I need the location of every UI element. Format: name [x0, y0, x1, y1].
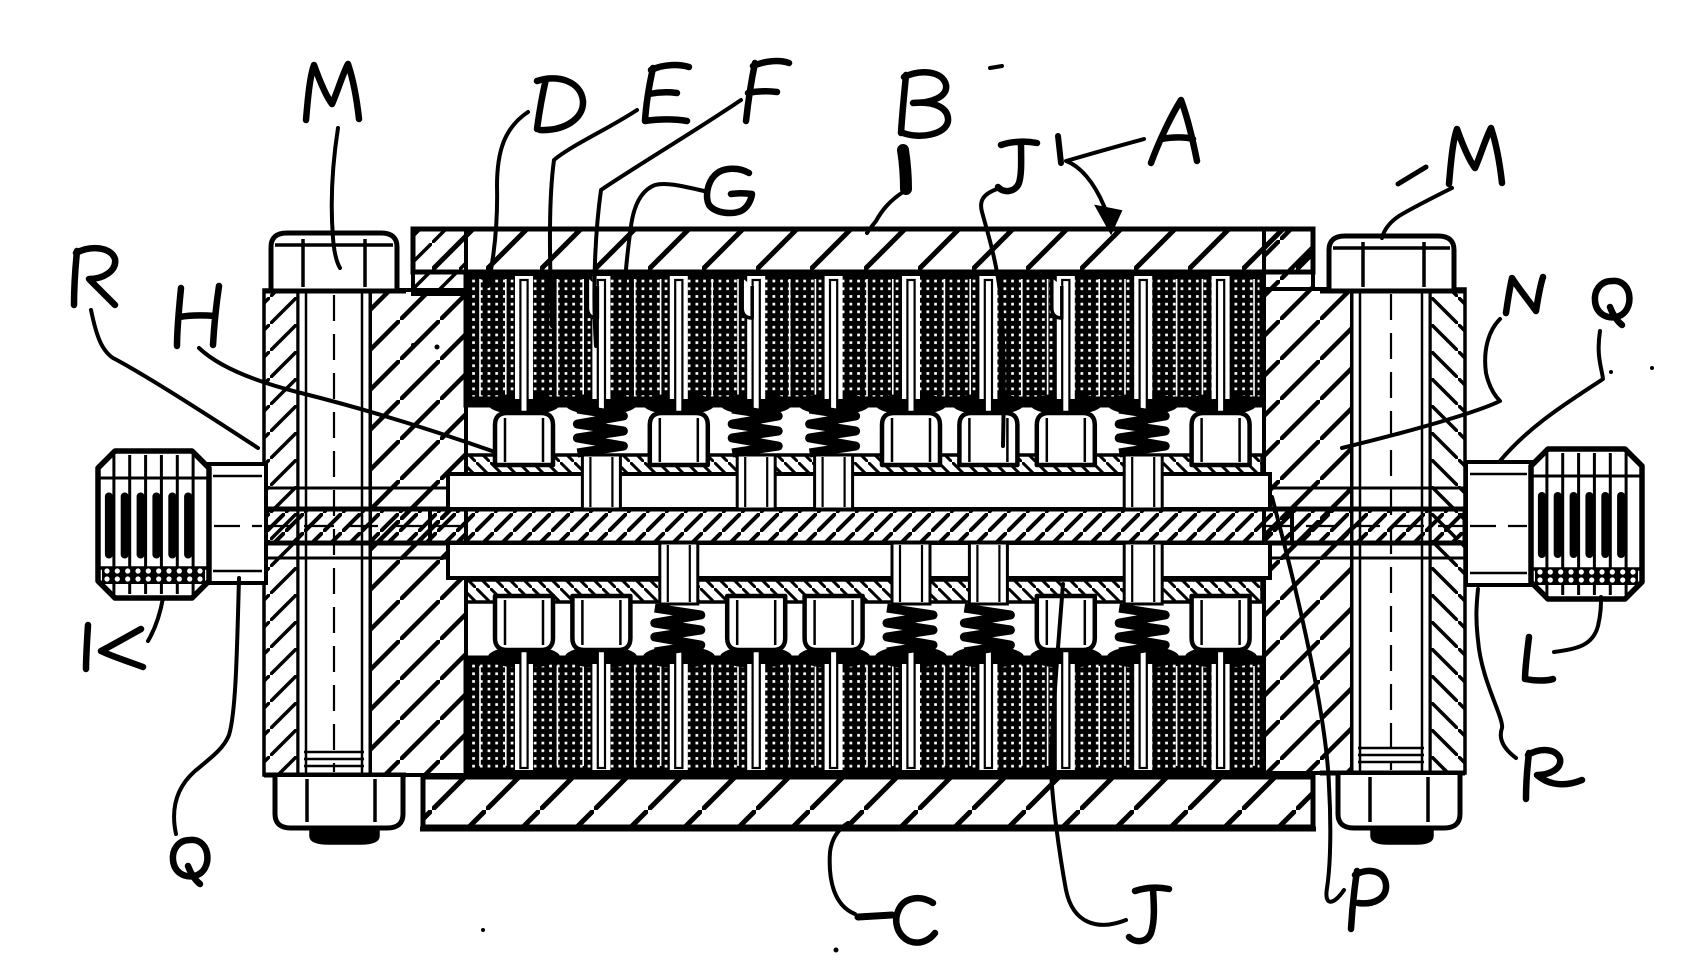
shaft centerline left	[216, 525, 460, 527]
lower piston J at x=1066	[1037, 596, 1095, 650]
label H	[177, 286, 219, 346]
upper piston J at x=524	[495, 413, 553, 465]
label N	[1506, 277, 1543, 313]
upper valve stem column at x=834	[815, 455, 853, 509]
upper piston J at x=1066	[1037, 413, 1095, 465]
lower screen band bottom edge	[466, 769, 1262, 776]
lower screen gap and push rod at x=524	[515, 664, 533, 770]
label C	[896, 898, 935, 942]
left tie-bolt hex head M	[271, 233, 397, 289]
top plate deep right end	[1264, 229, 1313, 289]
shaft centerline across left neck	[214, 525, 262, 527]
leader B	[903, 150, 906, 189]
valve hook G at x=601	[587, 278, 597, 318]
left tie-bolt shaft M	[298, 290, 370, 775]
upper screen gap and push rod at x=601	[592, 276, 610, 399]
label R right	[1526, 750, 1582, 799]
screen weave seams	[479, 279, 481, 397]
shaft segment seam right	[1290, 509, 1294, 543]
shaft centerline across right neck	[1470, 525, 1527, 527]
housing bottom cover plate C	[423, 777, 1313, 827]
lower valve stem column at x=911	[892, 543, 930, 604]
upper piston J at x=679	[650, 413, 708, 465]
upper return spring F at x=756	[732, 409, 778, 453]
lower piston J at x=834	[805, 596, 863, 650]
leader N	[1342, 319, 1500, 448]
label B	[901, 72, 948, 135]
label L	[1525, 637, 1553, 681]
shaft segment seam left	[428, 509, 432, 543]
lower screen gap and push rod at x=1221	[1212, 664, 1230, 770]
upper cylinder band	[448, 474, 1270, 509]
upper valve stem column at x=1143	[1124, 455, 1162, 509]
lower valve stem column at x=1143	[1124, 543, 1162, 604]
left bolt washer under head	[264, 289, 406, 294]
right tie-bolt hex head M	[1329, 236, 1454, 289]
upper screen gap and push rod at x=756	[747, 276, 765, 399]
label P	[1351, 871, 1386, 929]
left bolt end washer	[304, 751, 364, 754]
leader D	[488, 112, 528, 286]
drive shaft center hatched band N	[264, 509, 1465, 543]
lower piston rail	[466, 580, 1262, 602]
lower screen upper seat edge	[488, 646, 560, 668]
label M right	[1449, 128, 1502, 184]
upper screen gap and push rod at x=1221	[1212, 276, 1230, 399]
right tie-bolt shaft M	[1352, 289, 1430, 773]
lower cylinder band	[448, 543, 1270, 578]
upper screen gap and push rod at x=679	[670, 276, 688, 399]
label A	[1151, 100, 1197, 163]
leader M left	[332, 128, 340, 268]
upper piston J at x=988	[959, 413, 1017, 465]
leader Q left	[174, 578, 239, 834]
left bolt tip cap	[311, 828, 378, 843]
shaft bore lower line right	[1268, 557, 1529, 560]
shaft bore lower line left	[211, 557, 450, 560]
leader J top	[981, 189, 1004, 446]
right spacer block	[1264, 289, 1352, 773]
leader J bottom	[1051, 584, 1126, 925]
right end plate Q	[1430, 289, 1465, 773]
leader K	[148, 598, 163, 641]
lower return spring at x=1143	[1119, 608, 1165, 652]
label R left	[74, 248, 115, 305]
leader M right	[1382, 188, 1452, 238]
leader R right	[1476, 589, 1516, 758]
leader G	[623, 184, 704, 331]
lower valve stem column at x=679	[660, 543, 698, 604]
left spacer block	[370, 290, 466, 775]
upper screen gap and push rod at x=1066	[1057, 276, 1075, 399]
shaft bore upper line left	[211, 487, 450, 490]
upper valve stem column at x=601	[582, 455, 620, 509]
leader A	[1058, 136, 1061, 163]
left end plate Q	[264, 290, 298, 775]
upper screen band top edge	[466, 270, 1262, 276]
upper valve stem column at x=756	[737, 455, 775, 509]
label F	[746, 61, 789, 121]
lower screen gap and push rod at x=1143	[1134, 664, 1152, 770]
upper filter screen pack D	[466, 273, 1262, 405]
label K	[86, 625, 143, 669]
label Q left	[173, 840, 208, 884]
label J bottom	[1129, 888, 1169, 941]
lower return spring at x=988	[964, 608, 1010, 652]
leader R left	[91, 310, 258, 448]
lower return spring at x=911	[887, 608, 933, 652]
upper piston J at x=911	[882, 413, 940, 465]
upper screen lower seat edge	[488, 393, 560, 415]
arrowhead A	[1096, 206, 1121, 233]
leader L	[1554, 597, 1601, 652]
label Q right	[1595, 281, 1630, 325]
lower screen gap and push rod at x=601	[592, 664, 610, 770]
lower screen gap and push rod at x=1066	[1057, 664, 1075, 770]
upper return spring F at x=834	[810, 409, 856, 453]
shaft bore upper line right	[1268, 487, 1529, 490]
lower screen gap and push rod at x=911	[902, 664, 920, 770]
right bolt hex nut	[1320, 771, 1465, 776]
lower screen gap and push rod at x=679	[670, 664, 688, 770]
lower piston J at x=524	[495, 596, 553, 650]
label M left	[306, 64, 359, 120]
left knurled adjuster knob K	[98, 451, 209, 598]
lower screen gap and push rod at x=834	[825, 664, 843, 770]
upper piston rail	[466, 455, 1262, 474]
right knurled adjuster knob L	[1531, 449, 1642, 599]
leader E	[550, 110, 637, 326]
upper screen gap and push rod at x=911	[902, 276, 920, 399]
upper return spring F at x=601	[577, 409, 623, 453]
valve hook G at x=756	[742, 278, 752, 318]
leader C	[830, 823, 855, 914]
upper piston J at x=1221	[1192, 413, 1250, 465]
top plate deep left end	[413, 229, 466, 294]
label D	[537, 78, 583, 130]
upper screen gap and push rod at x=834	[825, 276, 843, 399]
label G	[707, 169, 752, 213]
stray ink dot	[435, 345, 440, 350]
shaft centerline right	[1262, 525, 1624, 527]
leader F	[594, 100, 741, 346]
lower valve stem column at x=988	[969, 543, 1007, 604]
left shaft neck	[209, 464, 266, 583]
lower piston J at x=601	[572, 596, 630, 650]
lower return spring at x=679	[655, 608, 701, 652]
valve hook G at x=1066	[1052, 278, 1062, 318]
housing top cover plate B	[413, 229, 1313, 272]
label E	[645, 65, 689, 121]
leader P	[1272, 497, 1344, 902]
lower screen gap and push rod at x=988	[979, 664, 997, 770]
upper screen gap and push rod at x=524	[515, 276, 533, 399]
upper screen gap and push rod at x=1143	[1134, 276, 1152, 399]
left bolt hex nut	[264, 773, 406, 778]
leader Q right	[1500, 331, 1603, 461]
leader H	[199, 348, 495, 452]
right bolt washer under head	[1320, 289, 1465, 294]
right shaft neck	[1466, 462, 1531, 585]
right bolt end washer	[1358, 747, 1424, 750]
lower piston J at x=1221	[1192, 596, 1250, 650]
upper return spring F at x=1143	[1119, 409, 1165, 453]
right bolt tip cap	[1372, 828, 1432, 843]
lower piston J at x=756	[727, 596, 785, 650]
lower screen gap and push rod at x=756	[747, 664, 765, 770]
upper screen gap and push rod at x=988	[979, 276, 997, 399]
lower filter screen pack	[466, 658, 1262, 772]
label J top	[998, 142, 1037, 191]
